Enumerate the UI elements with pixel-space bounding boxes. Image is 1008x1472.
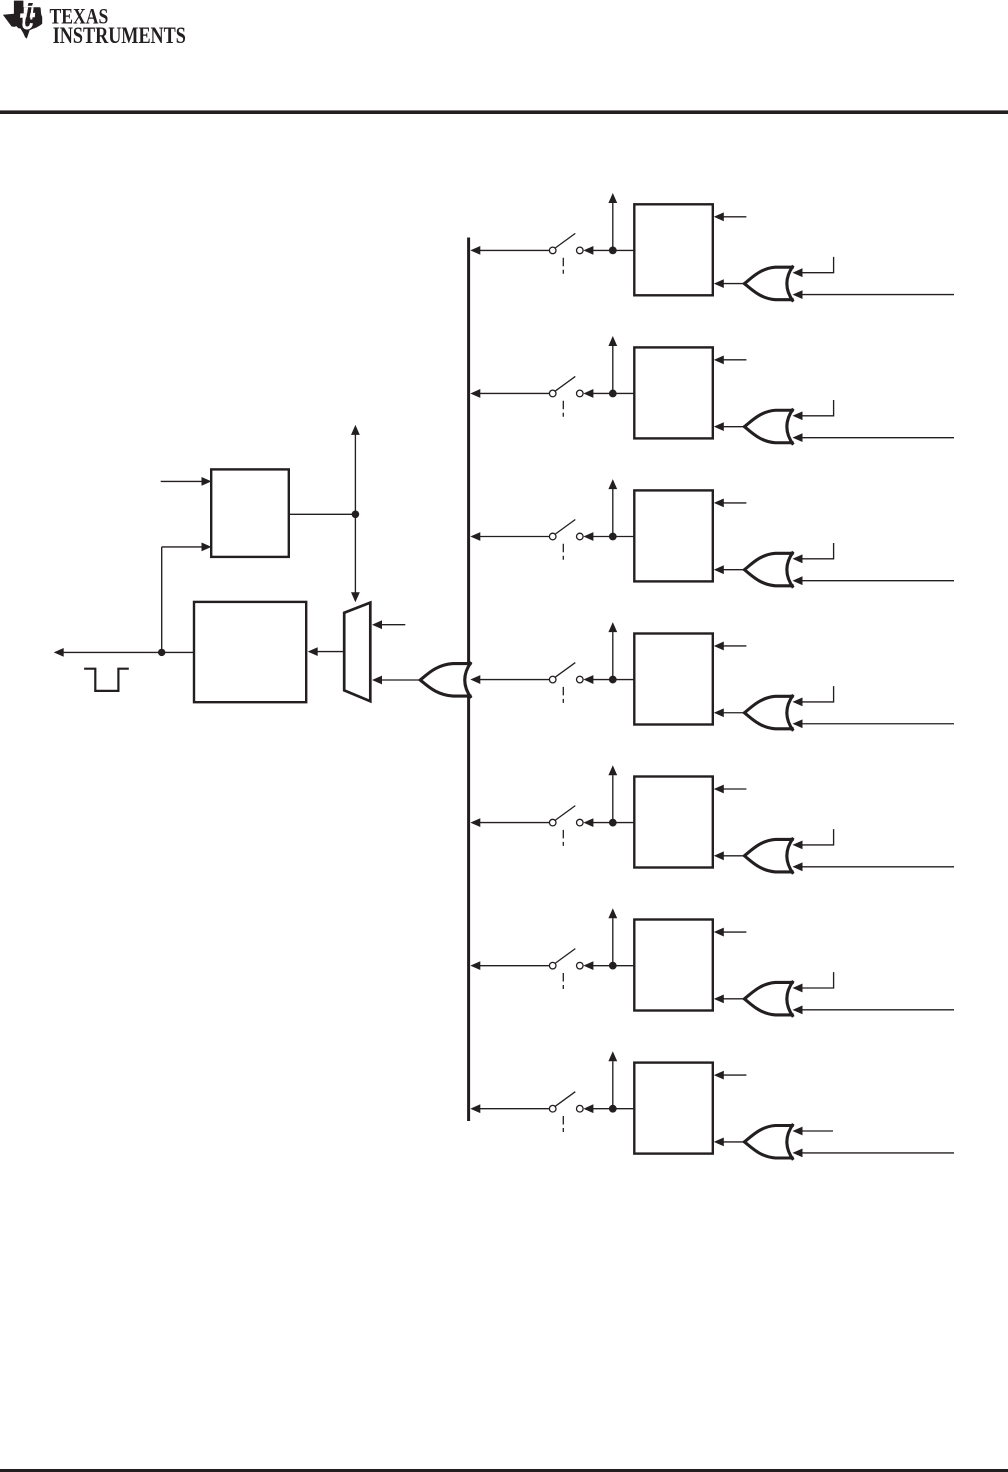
unit 7: wire XOR bottom input [802,1152,955,1154]
unit 1: wire switch to flag box [593,249,635,251]
unit 5: switch actuator dashed line [562,830,564,846]
unit 3: wire junction riser [612,489,614,537]
unit 6: wire switch to flag box [593,965,635,967]
block: interrupt edge select (small box) [211,469,289,557]
unit 3: arrow into XOR bottom input [793,576,803,585]
unit 5: arrow up (flag read) [608,765,617,775]
unit 6: junction node [609,962,617,970]
unit 6: wire XOR output to flag box [723,998,746,1000]
OR gate (interrupt flags summing) [420,664,471,697]
unit 4: wire XOR top input with corner [802,686,834,702]
unit 2: arrow into interrupt bus [470,389,480,398]
unit 1: edge-select XOR gate [744,267,793,300]
unit 4: arrow into XOR bottom input [793,719,803,728]
unit 1: switch contact circle A [549,247,556,254]
unit 6: switch contact circle B [577,962,584,969]
unit 7: wire top input [723,1074,747,1076]
unit 1: arrow into switch [583,246,593,255]
unit 7: switch actuator dashed line [562,1116,564,1132]
unit 4: arrow up (flag read) [608,622,617,632]
block: interrupt request latch (large box) [194,602,306,702]
TI logo i stem [25,8,31,23]
unit 6: wire XOR bottom input [802,1009,955,1011]
TI logo i-dot [28,3,33,6]
unit 1: arrow into interrupt bus [470,246,480,255]
unit 5: junction node [609,819,617,827]
unit 7: arrow into flag box from XOR [714,1138,724,1147]
unit 2: arrow into flag box top input [714,355,724,364]
unit 6: interrupt flag box [634,920,713,1011]
unit 6: switch contact circle A [549,962,556,969]
unit 2: arrow into XOR bottom input [793,433,803,442]
unit 7: arrow into switch [583,1104,593,1113]
mux (trapezoid) [344,603,370,702]
arrow into edge-select block input 2 [202,543,212,552]
arrow into mux select [372,620,382,629]
unit 2: wire bus to switch [480,392,550,394]
wire: input to edge-select block [161,480,203,482]
unit 3: switch contact circle A [549,533,556,540]
unit 2: wire junction riser [612,346,614,394]
unit 4: junction node [609,676,617,684]
unit 4: arrow into XOR top input [793,697,803,706]
unit 6: arrow into switch [583,961,593,970]
unit 1: switch contact circle B [577,247,584,254]
unit 1: wire junction riser [612,203,614,251]
unit 3: interrupt flag box [634,490,713,581]
wire: edge-select output [289,513,356,515]
TI logo t stem cutout [23,17,26,24]
unit 6: arrow into flag box from XOR [714,994,724,1003]
unit 6: arrow into XOR top input [793,984,803,993]
unit 6: wire top input [723,931,747,933]
TI logo gap right of i stem [30,7,33,19]
unit 1: switch blade [555,233,575,248]
unit 4: wire bus to switch [480,679,550,681]
unit 7: wire switch to flag box [593,1108,635,1110]
unit 3: wire XOR top input with corner [802,543,834,559]
unit 2: edge-select XOR gate [744,410,793,443]
unit 5: arrow into flag box top input [714,785,724,794]
TI logo gap above crossbar [24,7,29,13]
unit 5: wire junction riser [612,775,614,823]
unit 4: wire junction riser [612,632,614,680]
unit 1: arrow into XOR top input [793,268,803,277]
unit 2: wire XOR top input with corner [802,400,834,416]
unit 2: switch blade [555,376,575,391]
TI logo baseline swash [24,23,32,28]
unit 2: arrow into XOR top input [793,411,803,420]
unit 7: junction node [609,1105,617,1113]
unit 5: edge-select XOR gate [744,839,793,872]
junction: edge-select output node [352,511,360,519]
unit 7: arrow into XOR bottom input [793,1149,803,1158]
TI logo t crossbar cutout [20,13,35,18]
unit 2: arrow into switch [583,389,593,398]
unit 4: switch contact circle A [549,676,556,683]
unit 3: edge-select XOR gate [744,553,793,586]
unit 5: arrow into interrupt bus [470,818,480,827]
wire: OR gate output to mux data input [381,679,421,681]
unit 4: wire XOR output to flag box [723,712,746,714]
wire: vertical to mux select / up [354,434,356,593]
unit 3: wire XOR bottom input [802,580,955,582]
unit 4: arrow into flag box top input [714,642,724,651]
unit 3: arrow into interrupt bus [470,532,480,541]
unit 2: wire switch to flag box [593,392,635,394]
unit 6: edge-select XOR gate [744,982,793,1015]
unit 4: edge-select XOR gate [744,696,793,729]
unit 3: switch contact circle B [577,533,584,540]
unit 2: arrow up (flag read) [608,336,617,346]
unit 2: interrupt flag box [634,347,713,438]
unit 5: switch contact circle A [549,819,556,826]
svg-text:INSTRUMENTS: INSTRUMENTS [53,23,186,49]
unit 5: wire bus to switch [480,822,550,824]
unit 5: wire top input [723,788,747,790]
unit 5: arrow into XOR bottom input [793,862,803,871]
unit 1: arrow up (flag read) [608,193,617,203]
unit 4: wire XOR bottom input [802,723,955,725]
unit 2: wire XOR bottom input [802,437,955,439]
unit 2: switch actuator dashed line [562,401,564,417]
unit 5: arrow into flag box from XOR [714,851,724,860]
unit 7: wire XOR top input [802,1130,834,1132]
unit 1: arrow into flag box top input [714,212,724,221]
unit 4: wire top input [723,645,747,647]
unit 4: wire switch to flag box [593,679,635,681]
unit 1: wire top input [723,216,747,218]
unit 3: wire switch to flag box [593,536,635,538]
wire: feedback to edge-select input 2 [162,546,203,548]
unit 7: switch blade [555,1092,575,1107]
unit 5: interrupt flag box [634,777,713,868]
unit 7: edge-select XOR gate [744,1126,793,1159]
unit 6: switch blade [555,949,575,964]
unit 4: switch contact circle B [577,676,584,683]
unit 3: wire bus to switch [480,536,550,538]
unit 7: arrow into XOR top input [793,1127,803,1136]
arrow: interrupt request out (left) [54,648,64,657]
unit 1: wire XOR bottom input [802,294,955,296]
unit 3: arrow into switch [583,532,593,541]
wire: mux output to request latch [317,651,345,653]
unit 3: wire top input [723,502,747,504]
interrupt request bus (vertical) [467,238,470,1122]
unit 7: wire junction riser [612,1061,614,1109]
unit 6: wire bus to switch [480,965,550,967]
unit 2: switch contact circle A [549,390,556,397]
unit 7: wire bus to switch [480,1108,550,1110]
wire: interrupt request output [63,651,195,653]
footer rule [0,1469,1008,1472]
arrow up (to interrupt logic) [351,425,360,435]
unit 4: arrow into flag box from XOR [714,708,724,717]
unit 1: wire XOR top input with corner [802,257,834,273]
unit 3: junction node [609,533,617,541]
arrow down into mux [351,592,360,602]
unit 4: arrow into interrupt bus [470,675,480,684]
unit 6: arrow into XOR bottom input [793,1005,803,1014]
unit 3: arrow up (flag read) [608,479,617,489]
unit 5: wire XOR bottom input [802,866,955,868]
unit 2: switch contact circle B [577,390,584,397]
arrow into request latch from mux [308,647,318,656]
arrow into mux data input [372,676,382,685]
unit 3: switch actuator dashed line [562,544,564,560]
unit 5: wire switch to flag box [593,822,635,824]
unit 1: wire XOR output to flag box [723,283,746,285]
unit 6: arrow into interrupt bus [470,961,480,970]
unit 6: arrow into flag box top input [714,928,724,937]
unit 1: switch actuator dashed line [562,258,564,274]
unit 3: arrow into flag box from XOR [714,565,724,574]
unit 7: wire XOR output to flag box [723,1141,746,1143]
unit 2: wire top input [723,359,747,361]
junction: output/feedback node [158,649,165,656]
unit 4: switch actuator dashed line [562,687,564,703]
wire: mux select input [381,624,405,626]
unit 3: arrow into XOR top input [793,554,803,563]
unit 7: switch contact circle A [549,1105,556,1112]
unit 4: arrow into switch [583,675,593,684]
header rule [0,110,1008,114]
unit 1: wire bus to switch [480,249,550,251]
unit 7: arrow up (flag read) [608,1051,617,1061]
unit 6: arrow up (flag read) [608,908,617,918]
negative pulse waveform symbol [84,669,129,691]
unit 6: wire XOR top input with corner [802,972,834,988]
unit 7: switch contact circle B [577,1105,584,1112]
unit 2: wire XOR output to flag box [723,426,746,428]
unit 2: arrow into flag box from XOR [714,422,724,431]
unit 5: arrow into XOR top input [793,841,803,850]
unit 1: interrupt flag box [634,204,713,295]
unit 1: junction node [609,247,617,255]
unit 5: wire XOR output to flag box [723,855,746,857]
unit 3: arrow into flag box top input [714,499,724,508]
unit 3: wire XOR output to flag box [723,569,746,571]
unit 4: switch blade [555,663,575,678]
unit 2: junction node [609,390,617,398]
unit 5: wire XOR top input with corner [802,829,834,845]
unit 5: switch blade [555,806,575,821]
unit 7: interrupt flag box [634,1063,713,1154]
unit 5: arrow into switch [583,818,593,827]
unit 6: wire junction riser [612,918,614,966]
unit 7: arrow into flag box top input [714,1071,724,1080]
unit 5: switch contact circle B [577,819,584,826]
unit 6: switch actuator dashed line [562,973,564,989]
unit 3: switch blade [555,520,575,535]
unit 1: arrow into XOR bottom input [793,290,803,299]
wire: feedback vertical from output node [161,547,163,653]
unit 4: interrupt flag box [634,634,713,725]
arrow into edge-select block input 1 [202,477,212,486]
unit 7: arrow into interrupt bus [470,1104,480,1113]
unit 1: arrow into flag box from XOR [714,279,724,288]
TI logo Texas map [3,1,42,39]
